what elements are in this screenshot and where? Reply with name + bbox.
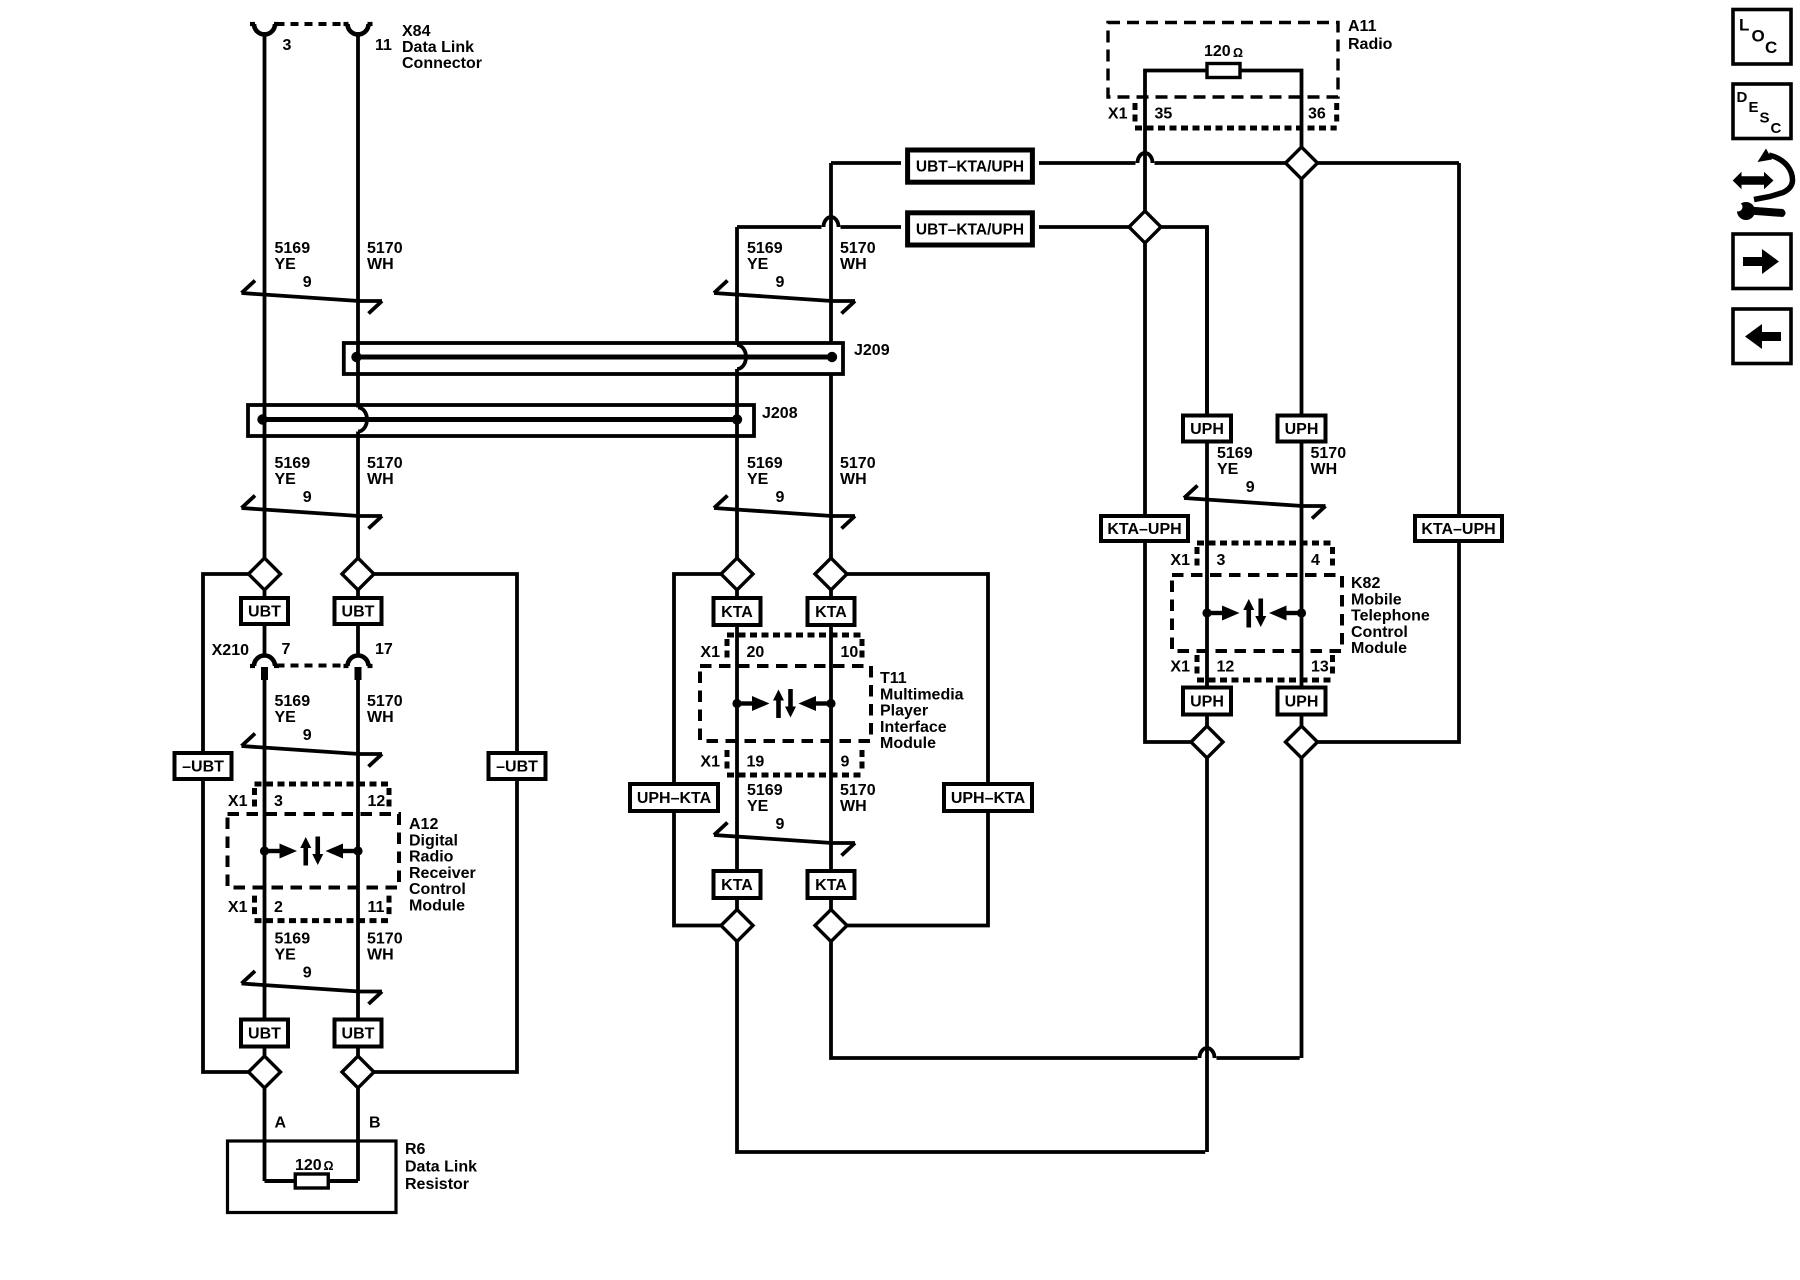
svg-text:Control: Control — [409, 881, 466, 898]
resistor 120 ohm (A11) — [1204, 43, 1243, 78]
label X84 Data Link Connector — [402, 23, 482, 72]
twisted pair marker (left, mid) — [242, 489, 383, 529]
module A11 dashed box — [1108, 23, 1338, 98]
label 5169 YE / 5170 WH (K82) — [1217, 445, 1346, 478]
svg-text:WH: WH — [840, 256, 867, 273]
svg-text:WH: WH — [840, 798, 867, 815]
svg-text:12: 12 — [368, 793, 386, 810]
svg-text:KTA–UPH: KTA–UPH — [1107, 521, 1181, 538]
svg-text:5170: 5170 — [367, 240, 403, 257]
svg-text:Module: Module — [880, 735, 936, 752]
svg-text:WH: WH — [840, 471, 867, 488]
svg-text:9: 9 — [303, 727, 312, 744]
label 5169 YE / 5170 WH (left, mid) — [275, 455, 403, 488]
svg-text:5170: 5170 — [367, 693, 403, 710]
svg-text:5170: 5170 — [367, 455, 403, 472]
label 5169 YE / 5170 WH (left, bottom) — [275, 931, 403, 964]
svg-text:L: L — [1739, 16, 1749, 35]
node diamond line2 / X1-35 — [1129, 211, 1161, 243]
wire far right drop (line1 to K82) — [1318, 515, 1460, 742]
connector A12 X1 bottom (pins 2 / 11) — [228, 896, 389, 921]
label box KTA (5169 wire, lower) — [714, 871, 761, 898]
svg-text:UPH: UPH — [1285, 421, 1319, 438]
connector K82 X1 bottom (pins 12 / 13) — [1170, 655, 1332, 680]
svg-text:36: 36 — [1308, 106, 1326, 123]
svg-text:WH: WH — [367, 709, 394, 726]
svg-text:X1: X1 — [1170, 659, 1190, 676]
wire T11 shield loop left — [674, 574, 721, 926]
label box KTA (5169 wire, upper) — [714, 598, 761, 625]
twisted pair marker (middle, below J208) — [714, 489, 855, 529]
icon forward arrow box — [1733, 234, 1791, 289]
svg-text:UBT: UBT — [342, 604, 375, 621]
splice pack J208 — [248, 405, 798, 436]
svg-text:7: 7 — [282, 641, 291, 658]
node diamond T11 bottom right — [815, 910, 847, 942]
svg-text:UBT: UBT — [248, 604, 281, 621]
wire UBT-KTA/UPH line 2 (5169 side) — [737, 227, 1207, 415]
twisted pair marker (left, X210) — [242, 727, 383, 767]
svg-text:X210: X210 — [212, 642, 249, 659]
label 5169 YE / 5170 WH (middle, bottom) — [747, 782, 876, 815]
wire A12 shield loop left — [203, 574, 249, 1072]
node diamond K82 bottom right — [1286, 726, 1318, 758]
module A12 box — [228, 814, 400, 888]
twisted pair marker (K82) — [1184, 479, 1326, 519]
svg-text:9: 9 — [776, 489, 785, 506]
svg-text:5170: 5170 — [840, 782, 876, 799]
label box UPH (pin12 wire, lower) — [1183, 688, 1231, 715]
label T11 Multimedia Player Interface Module — [880, 670, 964, 752]
svg-text:B: B — [369, 1115, 381, 1132]
svg-text:5169: 5169 — [747, 240, 783, 257]
svg-text:Ω: Ω — [1233, 46, 1243, 60]
svg-text:4: 4 — [1311, 552, 1320, 569]
node diamond T11 bottom left — [721, 910, 753, 942]
svg-text:5170: 5170 — [840, 455, 876, 472]
svg-text:5169: 5169 — [275, 240, 311, 257]
svg-text:Receiver: Receiver — [409, 865, 476, 882]
label 5169 YE / 5170 WH (middle, below J208) — [747, 455, 876, 488]
label box KTA (5170 wire, upper) — [808, 598, 855, 625]
svg-text:X1: X1 — [1108, 106, 1128, 123]
label R6 Data Link Resistor — [405, 1141, 477, 1193]
splice pack J209 — [344, 342, 890, 374]
svg-text:17: 17 — [375, 641, 393, 658]
svg-text:KTA: KTA — [815, 604, 847, 621]
wire R6 internal row — [265, 1179, 359, 1183]
wire hop marker placeholder — [0, 0, 1, 1]
svg-text:D: D — [1737, 89, 1748, 106]
label box KTA (5170 wire, lower) — [808, 871, 855, 898]
connector X210 (pins 7 / 17) — [212, 641, 393, 680]
svg-text:UBT: UBT — [248, 1026, 281, 1043]
module K82 internal data arrows — [1202, 599, 1306, 628]
label A12 Digital Radio Receiver Control Module — [409, 816, 476, 915]
wire K82 pin4 riser — [1300, 442, 1304, 1059]
label K82 Mobile Telephone Control Module — [1351, 575, 1430, 657]
svg-text:WH: WH — [367, 256, 394, 273]
svg-text:9: 9 — [776, 274, 785, 291]
svg-text:9: 9 — [303, 274, 312, 291]
icon DESC box — [1733, 84, 1791, 139]
wire hop (line2 over 5170 riser) — [824, 217, 839, 227]
svg-text:9: 9 — [303, 489, 312, 506]
svg-text:UPH: UPH — [1190, 421, 1224, 438]
svg-text:X1: X1 — [228, 899, 248, 916]
node diamond A12 top right — [342, 558, 374, 590]
svg-text:9: 9 — [841, 754, 850, 771]
svg-text:20: 20 — [747, 644, 765, 661]
svg-text:Ω: Ω — [324, 1159, 334, 1173]
svg-text:120: 120 — [1204, 43, 1231, 60]
svg-text:WH: WH — [1311, 461, 1338, 478]
svg-text:J208: J208 — [762, 405, 798, 422]
svg-text:Control: Control — [1351, 624, 1408, 641]
twisted pair marker (middle, bottom) — [714, 816, 855, 856]
svg-text:KTA: KTA — [721, 877, 753, 894]
icon LOC box — [1733, 10, 1791, 65]
svg-text:Telephone: Telephone — [1351, 608, 1430, 625]
label box UPH-KTA (right loop) — [944, 784, 1032, 811]
wire X1-36 riser down (to K82 pin 4) — [1300, 128, 1304, 415]
svg-text:Player: Player — [880, 703, 928, 720]
svg-text:35: 35 — [1155, 106, 1173, 123]
svg-text:5169: 5169 — [747, 782, 783, 799]
svg-text:YE: YE — [747, 256, 769, 273]
svg-text:Radio: Radio — [1348, 36, 1393, 53]
label 5169 YE / 5170 WH (middle, top) — [747, 240, 876, 273]
svg-text:X1: X1 — [700, 644, 720, 661]
svg-text:X1: X1 — [228, 793, 248, 810]
label box -UBT (left loop) — [175, 753, 232, 779]
node diamond A12 bottom left — [249, 1056, 281, 1088]
svg-text:YE: YE — [747, 798, 769, 815]
svg-text:2: 2 — [274, 899, 283, 916]
module K82 box — [1172, 575, 1342, 651]
wire A11 internal resistor row — [1145, 71, 1302, 129]
label box UBT (right wire, upper) — [335, 598, 382, 624]
svg-text:12: 12 — [1217, 659, 1235, 676]
svg-text:J209: J209 — [854, 342, 890, 359]
svg-text:YE: YE — [747, 471, 769, 488]
label A11 Radio — [1348, 18, 1393, 53]
resistor R6 120 ohm element — [295, 1157, 334, 1188]
svg-text:YE: YE — [275, 709, 297, 726]
wire hop of 5169 wire over J209 line — [737, 345, 746, 369]
wire K82 pin3 riser — [1205, 227, 1209, 1152]
wire hop (line1 over X1-35 riser) — [1138, 153, 1153, 163]
label pin A / pin B — [275, 1115, 381, 1132]
svg-text:9: 9 — [776, 816, 785, 833]
svg-text:3: 3 — [1217, 552, 1226, 569]
svg-text:E: E — [1749, 99, 1759, 116]
connector X84 Data Link Connector — [250, 24, 392, 54]
connector T11 X1 bottom (pins 19 / 9) — [700, 750, 862, 775]
node diamond line1 / X1-36 — [1286, 147, 1318, 179]
svg-text:9: 9 — [303, 965, 312, 982]
svg-text:3: 3 — [274, 793, 283, 810]
svg-text:Interface: Interface — [880, 719, 947, 736]
svg-text:A: A — [275, 1115, 287, 1132]
svg-text:–UBT: –UBT — [496, 759, 538, 776]
connector K82 X1 top (pins 3 / 4) — [1170, 543, 1332, 569]
node diamond A12 bottom right — [342, 1056, 374, 1088]
svg-text:YE: YE — [275, 471, 297, 488]
twisted pair marker (middle, top) — [714, 274, 855, 314]
svg-text:9: 9 — [1246, 479, 1255, 496]
icon back arrow box — [1733, 309, 1791, 364]
svg-text:T11: T11 — [880, 670, 907, 687]
twisted pair marker (left, top) — [242, 274, 383, 314]
wire T11 shield loop right — [847, 574, 988, 926]
wire 5170 WH left (X84-11 to A12/R6) — [358, 32, 367, 1181]
module A12 internal data arrows — [260, 837, 363, 866]
svg-text:KTA: KTA — [721, 604, 753, 621]
label box UPH-KTA (left loop) — [630, 784, 718, 811]
svg-text:19: 19 — [747, 754, 765, 771]
svg-text:O: O — [1752, 27, 1765, 46]
svg-text:120: 120 — [295, 1157, 322, 1174]
svg-text:Module: Module — [1351, 640, 1407, 657]
svg-text:UBT–KTA/UPH: UBT–KTA/UPH — [916, 221, 1024, 238]
svg-text:KTA: KTA — [815, 877, 847, 894]
svg-text:5169: 5169 — [275, 693, 311, 710]
wire UBT-KTA/UPH line 1 (5170 side) — [831, 163, 1459, 515]
wire X1-35 riser down (through KTA-UPH) — [1145, 128, 1191, 742]
svg-text:UBT–KTA/UPH: UBT–KTA/UPH — [916, 159, 1024, 176]
svg-text:X1: X1 — [1170, 552, 1190, 569]
svg-text:WH: WH — [367, 947, 394, 964]
svg-text:UBT: UBT — [342, 1026, 375, 1043]
label box -UBT (right loop) — [489, 753, 546, 779]
svg-text:11: 11 — [375, 37, 392, 54]
node diamond T11 top right — [815, 558, 847, 590]
label box UBT-KTA/UPH (line 1) — [908, 150, 1033, 182]
svg-text:5170: 5170 — [367, 931, 403, 948]
label 5169 YE / 5170 WH (left, X210) — [275, 693, 403, 726]
svg-text:X1: X1 — [700, 754, 720, 771]
svg-text:X84: X84 — [402, 23, 431, 40]
node diamond K82 bottom left — [1191, 726, 1223, 758]
resistor R6 outline box — [228, 1141, 397, 1213]
svg-text:WH: WH — [367, 471, 394, 488]
wire A12 shield loop right — [374, 574, 517, 1072]
svg-text:KTA–UPH: KTA–UPH — [1421, 521, 1495, 538]
label box UBT-KTA/UPH (line 2) — [908, 213, 1033, 245]
wire 5169 YE middle (line2 to T11/K82) — [737, 227, 1205, 1152]
svg-text:S: S — [1760, 110, 1770, 127]
connector A11 X1 (pins 35 / 36) — [1108, 103, 1337, 128]
twisted pair marker (left, bottom) — [242, 965, 383, 1005]
svg-text:C: C — [1765, 38, 1777, 57]
label box KTA-UPH (right) — [1415, 516, 1502, 541]
svg-text:Data Link: Data Link — [402, 39, 474, 56]
svg-text:A12: A12 — [409, 816, 438, 833]
label 5169 YE / 5170 WH (left, top) — [275, 240, 403, 273]
svg-text:5169: 5169 — [275, 455, 311, 472]
svg-text:13: 13 — [1311, 659, 1329, 676]
svg-text:YE: YE — [275, 947, 297, 964]
svg-text:5170: 5170 — [840, 240, 876, 257]
svg-text:Radio: Radio — [409, 849, 454, 866]
svg-text:Data Link: Data Link — [405, 1159, 477, 1176]
svg-text:–UBT: –UBT — [182, 759, 224, 776]
label box UBT (left wire, lower) — [241, 1020, 288, 1047]
svg-text:UPH–KTA: UPH–KTA — [637, 790, 712, 807]
label box UPH (pin13 wire, lower) — [1278, 688, 1326, 715]
svg-text:UPH: UPH — [1190, 694, 1224, 711]
connector A12 X1 top (pins 3 / 12) — [228, 784, 389, 810]
connector T11 X1 top (pins 20 / 10) — [700, 635, 862, 661]
label box UPH (pin4 wire, upper) — [1278, 416, 1326, 442]
svg-text:Connector: Connector — [402, 55, 482, 72]
svg-text:K82: K82 — [1351, 575, 1380, 592]
wire 5170 WH middle (line1 to T11/K82) — [831, 163, 1300, 1058]
module T11 box — [700, 666, 871, 741]
svg-text:R6: R6 — [405, 1141, 426, 1158]
svg-text:UPH: UPH — [1285, 694, 1319, 711]
svg-text:10: 10 — [841, 644, 859, 661]
svg-text:YE: YE — [275, 256, 297, 273]
svg-text:Multimedia: Multimedia — [880, 686, 964, 703]
svg-text:5170: 5170 — [1311, 445, 1347, 462]
svg-text:5169: 5169 — [1217, 445, 1253, 462]
svg-text:C: C — [1771, 120, 1782, 137]
label box UBT (left wire, upper) — [241, 598, 288, 624]
label box UBT (right wire, lower) — [335, 1020, 382, 1047]
svg-text:3: 3 — [283, 37, 292, 54]
icon harness routing (double arrow + wrench) — [1733, 149, 1793, 221]
label box UPH (pin3 wire, upper) — [1183, 416, 1231, 442]
svg-text:YE: YE — [1217, 461, 1239, 478]
svg-text:5169: 5169 — [747, 455, 783, 472]
svg-text:5169: 5169 — [275, 931, 311, 948]
svg-text:Mobile: Mobile — [1351, 591, 1402, 608]
label box KTA-UPH (left) — [1101, 516, 1188, 541]
svg-text:Resistor: Resistor — [405, 1176, 469, 1193]
module T11 internal data arrows — [732, 689, 835, 718]
svg-text:Digital: Digital — [409, 832, 458, 849]
wire 5169 YE left (X84-3 to A12/R6) — [263, 32, 267, 1181]
node diamond A12 top left — [249, 558, 281, 590]
node diamond T11 top left — [721, 558, 753, 590]
svg-text:A11: A11 — [1348, 18, 1377, 35]
wire hop (5170 row over 5169 riser, bottom) — [1200, 1048, 1215, 1058]
svg-text:11: 11 — [368, 899, 385, 916]
svg-text:Module: Module — [409, 898, 465, 915]
svg-text:UPH–KTA: UPH–KTA — [951, 790, 1026, 807]
